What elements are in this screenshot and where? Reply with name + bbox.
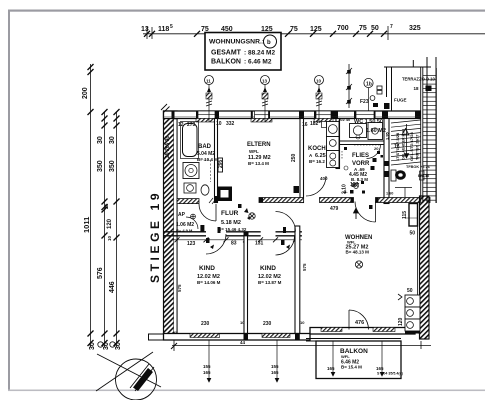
svg-text:10: 10	[240, 320, 245, 325]
marks in VORR	[373, 158, 377, 162]
svg-text:WFL: WFL	[341, 354, 350, 359]
svg-text:B= 4.9 M: B= 4.9 M	[176, 228, 193, 233]
shaft (black square) between BAD and FLUR	[217, 187, 232, 202]
svg-text:44: 44	[240, 340, 246, 345]
svg-text:75: 75	[359, 25, 367, 32]
svg-text:118: 118	[158, 26, 169, 33]
ELTERN label	[247, 142, 271, 166]
svg-text:GESAMT: GESAMT	[211, 50, 242, 57]
svg-text:S 1.04 35/5.4(a): S 1.04 35/5.4(a)	[377, 372, 404, 376]
window dim lines down (KIND2)	[271, 340, 279, 382]
window W1 in top wall (BAD)	[196, 111, 217, 122]
svg-text:TERRAZZO D 10: TERRAZZO D 10	[402, 77, 435, 82]
svg-text:FLUR: FLUR	[221, 210, 239, 217]
svg-text:BALKON: BALKON	[211, 59, 241, 66]
dim line under FLUR wall	[172, 239, 302, 241]
svg-text:B= 14.06 M: B= 14.06 M	[197, 280, 221, 285]
hatched band VORR south right	[376, 198, 431, 203]
svg-text:KIND: KIND	[260, 265, 276, 272]
washbasin in WC room	[350, 124, 367, 138]
svg-text:1.60: 1.60	[386, 192, 393, 196]
door KOCHEN	[306, 176, 326, 196]
stair arrow line	[406, 124, 408, 158]
svg-text:10: 10	[316, 79, 322, 84]
svg-text:165: 165	[203, 370, 211, 375]
wall KOCHEN/VORR	[336, 119, 340, 169]
svg-text:25 205 30: 25 205 30	[165, 136, 171, 158]
stair left flight treads	[391, 120, 421, 165]
svg-text:BAD: BAD	[198, 144, 212, 150]
svg-text:TFBOK +2.76: TFBOK +2.76	[406, 165, 430, 169]
svg-text:WOHNUNGSNR.:: WOHNUNGSNR.:	[209, 39, 264, 46]
ceiling symbol in WOHNEN	[355, 261, 362, 268]
svg-text:5.18 M2: 5.18 M2	[221, 220, 241, 226]
svg-text:F23: F23	[360, 99, 369, 105]
stair right wall rails	[421, 67, 437, 203]
svg-text:: 88.24 M2: : 88.24 M2	[244, 50, 275, 57]
kitchen unit column	[322, 122, 340, 168]
door KIND1	[206, 234, 226, 254]
door BAD->FLUR	[199, 204, 216, 221]
door AP	[186, 217, 198, 229]
svg-text:230: 230	[201, 321, 210, 327]
svg-text:TRITTST. 28/17: TRITTST. 28/17	[416, 135, 420, 160]
KIND 2 label	[258, 265, 282, 285]
left vertical dimension chain	[91, 64, 117, 347]
svg-text:30: 30	[103, 342, 110, 350]
wall corner piece bottom left	[149, 334, 164, 340]
svg-text:165: 165	[271, 370, 279, 375]
window sill KIND1	[190, 334, 220, 338]
window W4 in top wall (WC)	[356, 111, 374, 119]
WC label	[354, 119, 386, 134]
svg-text:700: 700	[337, 25, 349, 32]
svg-text:KIND: KIND	[199, 265, 215, 272]
bottom exterior wall (KIND rooms)	[164, 334, 311, 341]
svg-text:30: 30	[115, 342, 122, 350]
svg-text:: 6.46 M2: : 6.46 M2	[244, 59, 272, 66]
window sill WOHNEN left	[321, 328, 342, 332]
svg-text:575: 575	[302, 263, 307, 271]
window W3 in top wall (KOCHEN)	[316, 111, 331, 119]
door KIND2	[276, 212, 296, 232]
svg-text:STIEGE 19: STIEGE 19	[148, 190, 162, 283]
svg-text:200: 200	[82, 87, 89, 99]
svg-text:165: 165	[327, 366, 335, 371]
small WC in BAD	[201, 185, 209, 195]
svg-text:102 40: 102 40	[338, 117, 351, 122]
BAD label	[197, 144, 218, 162]
vertical dim above plan at x=349	[346, 64, 352, 108]
bottom exterior wall (WOHNEN)	[310, 328, 415, 335]
page frame top	[8, 10, 485, 12]
svg-text:350: 350	[109, 160, 116, 172]
svg-text:182°: 182°	[310, 121, 320, 127]
svg-text:13: 13	[262, 79, 268, 84]
wall VORR/stair vertical	[384, 119, 389, 204]
apartment number title box	[205, 33, 281, 71]
svg-text:2.10: 2.10	[342, 184, 348, 194]
svg-text:11: 11	[206, 79, 211, 84]
svg-text:50: 50	[407, 288, 413, 294]
washing machine in BAD	[183, 163, 199, 179]
svg-text:5: 5	[170, 24, 173, 30]
top dimension labels	[141, 24, 421, 33]
wall joints on FLUR south wall	[244, 226, 301, 236]
svg-text:B= 10.4 M: B= 10.4 M	[197, 157, 218, 162]
svg-text:120: 120	[398, 317, 404, 326]
entry arrow	[355, 208, 357, 219]
svg-text:WC 1.50 50: WC 1.50 50	[354, 119, 383, 125]
misc small marks VORR area	[344, 147, 383, 194]
svg-text:18: 18	[414, 86, 420, 91]
WOHNEN label	[345, 235, 372, 255]
balkon dim lines	[333, 341, 382, 376]
radiator right wall top	[409, 204, 418, 227]
svg-text:575: 575	[177, 284, 182, 292]
wall KIND2/WOHNEN	[295, 226, 300, 334]
wall KIND1/KIND2	[244, 236, 248, 334]
svg-text:B= 15.46 4.32: B= 15.46 4.32	[218, 227, 247, 232]
svg-text:b: b	[267, 40, 271, 46]
left exterior wall (hatched)	[164, 111, 178, 334]
AP fixture symbol	[191, 214, 196, 219]
svg-text:75: 75	[290, 26, 298, 33]
svg-text:479: 479	[330, 206, 339, 212]
svg-text:187: 187	[350, 182, 359, 188]
svg-text:50: 50	[371, 25, 379, 32]
svg-text:120: 120	[107, 218, 113, 229]
svg-text:B= 13.4 M: B= 13.4 M	[248, 161, 269, 166]
svg-text:13: 13	[141, 26, 149, 33]
ceiling symbol in FLUR	[249, 213, 255, 219]
window W2 in top wall (ELTERN)	[251, 111, 272, 122]
page frame bottom	[8, 390, 485, 392]
radiator boxes right wall bottom	[398, 294, 420, 331]
svg-text:GEL.STG 17/28: GEL.STG 17/28	[409, 132, 414, 161]
svg-text:25: 25	[104, 203, 109, 209]
svg-text:325: 325	[409, 25, 421, 32]
stair right flight treads	[423, 76, 437, 201]
svg-text:1011: 1011	[82, 217, 91, 233]
svg-text:ELTERN: ELTERN	[247, 142, 271, 148]
svg-text:350: 350	[97, 160, 104, 172]
svg-text:B= 13.87 M: B= 13.87 M	[258, 280, 282, 285]
rotated small dims	[165, 136, 415, 326]
top dimension chain	[143, 26, 485, 40]
bathtub in BAD	[183, 124, 198, 157]
page frame left	[8, 10, 10, 391]
hatched band under BAD (FLUR north wall)	[177, 199, 199, 204]
wall ELTERN/KOCHEN	[300, 119, 304, 203]
top exterior wall band	[164, 111, 421, 119]
triangle symbol	[402, 129, 409, 136]
left dimension labels (rotated)	[82, 87, 122, 350]
svg-text:476: 476	[355, 320, 364, 326]
svg-text:GELAENDER H.90: GELAENDER H.90	[402, 129, 406, 160]
svg-text:10: 10	[107, 235, 112, 241]
svg-text:10: 10	[300, 320, 305, 325]
electric symbols in FLUR	[238, 204, 251, 220]
svg-text:B= 15.4 M: B= 15.4 M	[341, 365, 362, 370]
line under bottom wall	[172, 345, 431, 347]
tick at top-left corner	[161, 104, 170, 113]
KIND 1 label	[197, 265, 221, 285]
shower square in WC	[368, 123, 383, 140]
svg-text:7: 7	[390, 24, 393, 30]
svg-text:83: 83	[231, 241, 237, 247]
svg-text:B 1.10: B 1.10	[418, 174, 429, 178]
stair right wall strip	[427, 57, 436, 203]
circled letter b	[264, 35, 277, 48]
hatched band under ELTERN	[259, 198, 304, 203]
svg-text:250: 250	[291, 153, 297, 162]
wall axis markers above top wall	[205, 76, 214, 123]
washbasin in BAD	[184, 183, 196, 193]
wall WC/VORR horizontal	[339, 140, 384, 142]
right exterior wall (hatched, WOHNEN)	[420, 196, 430, 339]
svg-text:30: 30	[97, 136, 104, 144]
svg-text:12: 12	[178, 122, 184, 128]
svg-text:30: 30	[109, 136, 116, 144]
ELTERN radiator	[218, 158, 223, 172]
svg-text:B= 48.13 M: B= 48.13 M	[346, 250, 370, 255]
FLUR label	[218, 210, 247, 232]
svg-text:115: 115	[402, 211, 408, 219]
svg-text:131: 131	[255, 241, 264, 247]
door arc WC	[367, 145, 381, 159]
hatched band under KOCHEN	[320, 198, 354, 203]
entry door VORR	[355, 202, 376, 223]
svg-text:123: 123	[187, 241, 196, 247]
svg-text:WFL: WFL	[249, 149, 259, 154]
svg-text:576: 576	[97, 267, 104, 279]
wall BAD/ELTERN	[215, 119, 218, 203]
svg-text:400: 400	[320, 176, 328, 181]
wall black joints on stair wall	[384, 161, 389, 177]
FLUR south wall	[164, 232, 302, 236]
top wall joints (black)	[172, 111, 421, 119]
balcony door WOHNEN	[349, 310, 369, 330]
svg-text:165: 165	[376, 366, 384, 371]
svg-text:FUGE: FUGE	[394, 98, 407, 103]
svg-text:FLIES: FLIES	[352, 153, 369, 159]
circled marker above wall	[364, 78, 373, 87]
svg-text:125: 125	[310, 26, 322, 33]
window sill KIND2	[262, 334, 290, 338]
svg-text:446: 446	[109, 281, 116, 293]
svg-text:20: 20	[374, 146, 379, 151]
svg-text:50: 50	[410, 231, 416, 237]
svg-text:332: 332	[226, 121, 235, 127]
KOCHEN label	[308, 146, 335, 164]
window sill WOHNEN right	[373, 328, 395, 332]
svg-text:230: 230	[263, 321, 272, 327]
black corner bottom right	[405, 325, 422, 334]
svg-text:1.60 M2: 1.60 M2	[366, 128, 386, 134]
svg-text:30: 30	[89, 342, 96, 350]
AP label	[176, 212, 194, 233]
svg-text:16: 16	[394, 144, 400, 150]
svg-text:16: 16	[302, 122, 308, 128]
svg-text:273: 273	[187, 122, 196, 128]
svg-text:1b: 1b	[366, 82, 372, 88]
svg-text:155: 155	[271, 364, 279, 369]
svg-text:10: 10	[216, 121, 222, 127]
door threshold ticks BAD doorway	[209, 198, 216, 204]
toilet near stairs	[391, 170, 406, 181]
svg-text:295: 295	[218, 159, 224, 168]
svg-text:155: 155	[203, 364, 211, 369]
svg-text:AP: AP	[178, 212, 186, 218]
VORR label	[343, 146, 379, 194]
switch marks at doors	[206, 227, 286, 245]
window dim lines down (KIND1)	[203, 340, 211, 382]
circles at bottom of dim lines	[98, 342, 103, 347]
